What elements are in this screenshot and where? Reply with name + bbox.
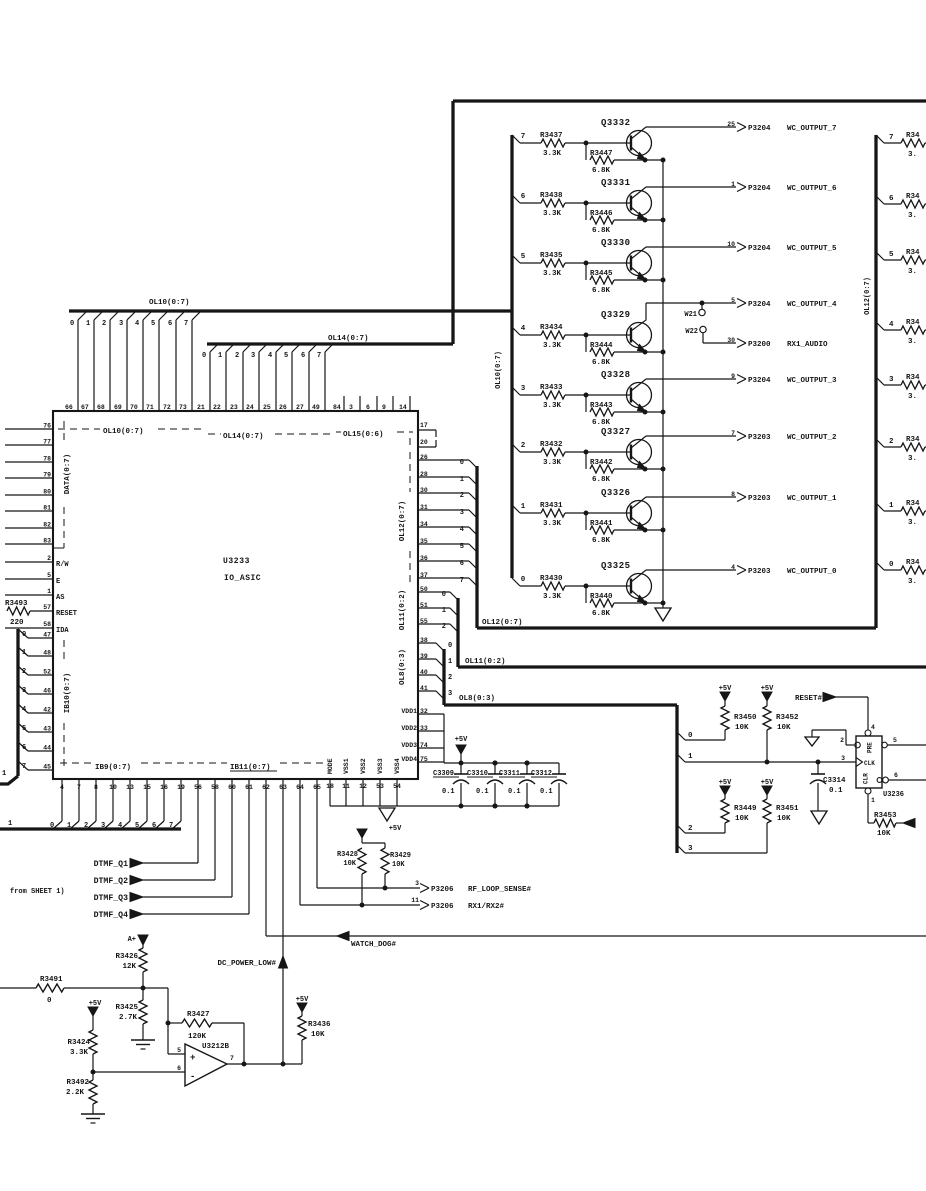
pin 36 U3233 right, OL12 bit 6 tap wire: [418, 560, 469, 562]
svg-text:+: +: [190, 1053, 195, 1063]
svg-text:3.3K: 3.3K: [70, 1049, 89, 1057]
svg-text:OL10(0:7): OL10(0:7): [149, 299, 190, 307]
svg-text:3: 3: [521, 385, 526, 393]
svg-text:41: 41: [420, 685, 428, 692]
svg-text:3.3K: 3.3K: [543, 150, 562, 158]
resistor R3438 3.3K: [541, 199, 565, 207]
svg-text:OL10(0:7): OL10(0:7): [103, 428, 144, 436]
bus label IB10(0:7) internal left: [63, 640, 65, 663]
wire OL8 bit 0 tap to R3450: [677, 732, 685, 740]
svg-text:3: 3: [889, 376, 894, 384]
pin 71 U3233 top, OL10 bit 5 tap wire: [158, 320, 160, 411]
svg-text:40: 40: [420, 669, 428, 676]
resistor R3447 6.8K base-emitter: [585, 143, 587, 160]
bus OL10(0:7) horizontal: [69, 309, 512, 312]
wire collector output WC_OUTPUT_4: [646, 302, 736, 304]
svg-text:R3442: R3442: [590, 459, 613, 467]
svg-text:44: 44: [43, 745, 51, 752]
pin 79 U3233 left DATA wire: [5, 477, 53, 479]
pin 49 U3233 top, OL14 bit 7 tap wire: [324, 352, 326, 411]
svg-text:3.: 3.: [908, 212, 917, 220]
svg-text:0: 0: [202, 352, 206, 360]
wire OL10 bit 2 tap: [512, 444, 520, 452]
svg-text:1: 1: [218, 352, 222, 360]
svg-text:VDD4: VDD4: [401, 756, 417, 763]
wire VDD tie to +5V rail: [443, 714, 445, 763]
svg-text:3.3K: 3.3K: [543, 270, 562, 278]
svg-text:51: 51: [420, 602, 428, 609]
resistor R3452 10K: [766, 701, 768, 706]
svg-text:R3437: R3437: [540, 132, 563, 140]
svg-text:U3236: U3236: [883, 791, 904, 799]
svg-text:20: 20: [420, 439, 428, 446]
junction Q3330 emitter: [643, 278, 647, 282]
svg-text:+5V: +5V: [389, 825, 402, 833]
bus label IB9(0:7) internal bottom: [60, 762, 92, 764]
wire collector output WC_OUTPUT_5: [646, 246, 736, 248]
svg-text:14: 14: [399, 404, 407, 411]
svg-text:DTMF_Q4: DTMF_Q4: [94, 911, 128, 920]
svg-text:3.: 3.: [908, 393, 917, 401]
svg-text:R3436: R3436: [308, 1021, 331, 1029]
svg-text:R3425: R3425: [115, 1004, 138, 1012]
svg-text:W22: W22: [685, 328, 698, 336]
resistor R3436 10K: [301, 1012, 303, 1016]
wire base of Q3329: [565, 334, 631, 336]
svg-text:5: 5: [731, 297, 735, 304]
pin 19 U3233 bottom, IB9 bit 7 tap wire: [180, 779, 182, 821]
svg-text:R34: R34: [906, 249, 920, 257]
svg-text:R3491: R3491: [40, 976, 63, 984]
pin 58 IDA wire: [5, 627, 53, 629]
svg-text:3: 3: [688, 845, 693, 853]
svg-text:C3314: C3314: [823, 777, 846, 785]
resistor R3451 10K: [766, 795, 768, 799]
transistor Q3327 NPN: [627, 440, 652, 465]
svg-text:Q3328: Q3328: [601, 370, 631, 380]
resistor R3493 220 on RESET: [7, 607, 30, 615]
transistor Q3330 NPN: [627, 251, 652, 276]
svg-text:1: 1: [8, 820, 12, 828]
svg-text:1: 1: [86, 320, 90, 328]
svg-text:WC_OUTPUT_4: WC_OUTPUT_4: [787, 301, 837, 309]
pin 31 U3233 right, OL12 bit 3 tap wire: [418, 509, 469, 511]
transistor Q3325 NPN: [627, 574, 652, 599]
svg-text:+5V: +5V: [455, 736, 468, 744]
svg-text:7: 7: [317, 352, 321, 360]
pin 28 U3233 right, OL12 bit 1 tap wire: [418, 476, 469, 478]
pin 57 RESET wire: [30, 610, 53, 612]
svg-text:DC_POWER_LOW#: DC_POWER_LOW#: [217, 960, 276, 968]
svg-text:1: 1: [2, 770, 6, 778]
pin 70 U3233 top, OL10 bit 4 tap wire: [142, 320, 144, 411]
svg-text:4: 4: [135, 320, 139, 328]
junction Q3329 emitter: [643, 350, 647, 354]
svg-text:4: 4: [521, 325, 526, 333]
bus label OL14(0:7) internal top: [208, 433, 221, 435]
pin 53 VSS3 U3233 bottom wire: [379, 779, 381, 806]
junction C3310 ground: [459, 804, 463, 808]
svg-text:0.1: 0.1: [829, 787, 843, 795]
svg-text:50: 50: [420, 586, 428, 593]
svg-text:OL12(0:7): OL12(0:7): [482, 619, 523, 627]
bus OL14(0:7) horizontal and riser to top rail: [207, 342, 453, 345]
wire base of Q3330: [565, 262, 631, 264]
svg-text:0.1: 0.1: [508, 788, 521, 796]
svg-text:OL12(0:7): OL12(0:7): [864, 277, 872, 315]
pin 39 U3233 right, OL8 bit 1 tap wire: [418, 658, 436, 660]
svg-text:U3212B: U3212B: [202, 1043, 230, 1051]
svg-text:P3203: P3203: [748, 568, 771, 576]
svg-text:R34: R34: [906, 193, 920, 201]
svg-text:76: 76: [43, 423, 51, 430]
bus label IB11(0:7) internal bottom: [197, 762, 227, 764]
wire RX1/RX2# from pin 64: [299, 779, 301, 905]
svg-text:3: 3: [460, 509, 464, 517]
svg-text:6.8K: 6.8K: [592, 419, 611, 427]
resistor R3440 6.8K base-emitter: [585, 586, 587, 603]
resistor R3426 12K: [142, 945, 144, 948]
svg-text:7: 7: [889, 134, 894, 142]
svg-text:6: 6: [22, 744, 26, 752]
svg-text:3: 3: [22, 687, 26, 695]
pin 54 VSS4 U3233 bottom wire: [396, 779, 398, 806]
pin 2 R/W wire: [5, 561, 53, 563]
ground C3314: [811, 811, 827, 824]
wire collector output WC_OUTPUT_0: [646, 569, 736, 571]
pin 66 U3233 top, OL10 bit 0 tap wire: [77, 320, 79, 411]
svg-text:6.8K: 6.8K: [592, 359, 611, 367]
wire collector output WC_OUTPUT_7: [646, 126, 736, 128]
svg-text:10: 10: [727, 241, 735, 248]
pin 69 U3233 top, OL10 bit 3 tap wire: [126, 320, 128, 411]
svg-text:R3429: R3429: [390, 852, 411, 860]
resistor R3492 2.2K: [92, 1072, 94, 1080]
svg-text:P3203: P3203: [748, 495, 771, 503]
svg-text:PRE: PRE: [867, 742, 874, 753]
svg-text:8: 8: [94, 784, 98, 791]
svg-text:WC_OUTPUT_6: WC_OUTPUT_6: [787, 185, 837, 193]
svg-text:2: 2: [889, 438, 894, 446]
pin 23 U3233 top, OL14 bit 2 tap wire: [242, 352, 244, 411]
svg-text:81: 81: [43, 505, 51, 512]
resistor R3429 10K: [384, 843, 386, 848]
wire comparator output: [227, 1063, 302, 1065]
svg-text:83: 83: [43, 538, 51, 545]
svg-text:5: 5: [460, 543, 464, 551]
resistor R3428 10K: [358, 848, 366, 874]
svg-text:R3444: R3444: [590, 342, 613, 350]
svg-text:2: 2: [460, 492, 464, 500]
pin 78 U3233 left DATA wire: [5, 461, 53, 463]
pin 76 U3233 left DATA wire: [5, 428, 53, 430]
svg-text:P3204: P3204: [748, 185, 771, 193]
svg-text:77: 77: [43, 439, 51, 446]
bus label OL15(0:5) internal top: [336, 431, 341, 433]
svg-text:VDD2: VDD2: [401, 725, 417, 732]
ground R3492: [81, 1113, 105, 1115]
svg-text:R3438: R3438: [540, 192, 563, 200]
svg-text:19: 19: [177, 784, 185, 791]
svg-text:35: 35: [420, 538, 428, 545]
svg-text:220: 220: [10, 619, 24, 627]
pin 52 U3233 left, IB10 bit 2 tap wire: [28, 674, 53, 676]
svg-text:47: 47: [43, 632, 51, 639]
svg-text:6.8K: 6.8K: [592, 476, 611, 484]
resistor R3443 6.8K base-emitter: [585, 395, 587, 412]
svg-text:IDA: IDA: [56, 627, 69, 635]
wire to comparator + input: [167, 988, 169, 1054]
svg-text:Q3327: Q3327: [601, 427, 631, 437]
svg-text:R3492: R3492: [66, 1079, 89, 1087]
resistor R34xx 3.3K right column bit 7 (clipped): [901, 139, 925, 147]
svg-text:0: 0: [70, 320, 74, 328]
svg-text:7: 7: [460, 577, 464, 585]
svg-text:10: 10: [109, 784, 117, 791]
pin 40 U3233 right, OL8 bit 2 tap wire: [418, 674, 436, 676]
pin 20 U3233 right OL15 stub: [418, 446, 436, 448]
pin 81 U3233 left DATA wire: [5, 510, 53, 512]
svg-text:R3450: R3450: [734, 714, 757, 722]
resistor R34xx 3.3K right column bit 4 (clipped): [901, 326, 925, 334]
pin 17 U3233 right OL15 stub: [418, 429, 436, 431]
pin 5 E wire: [5, 578, 53, 580]
svg-text:4: 4: [889, 321, 894, 329]
svg-text:32: 32: [420, 708, 428, 715]
svg-text:R3433: R3433: [540, 384, 563, 392]
svg-text:7: 7: [77, 784, 81, 791]
svg-text:10K: 10K: [343, 860, 356, 868]
svg-text:37: 37: [420, 572, 428, 579]
resistor R3427 120K feedback: [168, 1022, 182, 1024]
jumper W22: [700, 326, 706, 332]
wire CLR to R3453: [867, 794, 869, 823]
svg-text:2.7K: 2.7K: [119, 1014, 138, 1022]
pin 30 U3233 right, OL12 bit 2 tap wire: [418, 492, 469, 494]
svg-text:WATCH_DOG#: WATCH_DOG#: [351, 941, 397, 949]
svg-text:34: 34: [420, 521, 428, 528]
svg-text:38: 38: [420, 637, 428, 644]
svg-text:3.3K: 3.3K: [543, 593, 562, 601]
pin 27 U3233 top, OL14 bit 6 tap wire: [308, 352, 310, 411]
svg-text:WC_OUTPUT_5: WC_OUTPUT_5: [787, 245, 837, 253]
svg-text:3: 3: [415, 880, 419, 887]
bus OL11(0:2) to sheet edge: [456, 598, 459, 667]
svg-text:IB10(0:7): IB10(0:7): [64, 673, 72, 714]
svg-text:48: 48: [43, 650, 51, 657]
junction R3428 to RX1/RX2#: [360, 903, 364, 907]
svg-text:6: 6: [894, 772, 898, 779]
pin 10 U3233 bottom, IB9 bit 3 tap wire: [112, 779, 114, 821]
svg-text:6.8K: 6.8K: [592, 610, 611, 618]
svg-text:DTMF_Q2: DTMF_Q2: [94, 877, 128, 886]
wire collector output WC_OUTPUT_1: [646, 496, 736, 498]
svg-text:0: 0: [47, 997, 52, 1005]
pin 5 Q output: [882, 742, 888, 748]
junction Q3326 emitter: [643, 528, 647, 532]
svg-text:2: 2: [235, 352, 239, 360]
svg-text:10K: 10K: [877, 830, 891, 838]
svg-text:3: 3: [349, 404, 353, 411]
wire OL10 bit 6 tap: [512, 195, 520, 203]
wire base of Q3326: [565, 512, 631, 514]
resistor R3491 0: [36, 984, 64, 992]
wire OL8 bit 1 tap to U3236 CLK: [677, 754, 685, 762]
transistor Q3329 NPN: [627, 323, 652, 348]
svg-text:Q3330: Q3330: [601, 238, 631, 248]
svg-text:78: 78: [43, 456, 51, 463]
pin 2 D input: [855, 742, 861, 748]
svg-text:2: 2: [840, 737, 844, 744]
svg-text:75: 75: [420, 756, 428, 763]
svg-text:R34: R34: [906, 319, 920, 327]
junction R3452 on CLK line: [765, 760, 769, 764]
svg-text:30: 30: [420, 487, 428, 494]
svg-text:54: 54: [393, 783, 401, 790]
capacitor C3311 0.1: [525, 761, 529, 765]
svg-text:VSS1: VSS1: [343, 758, 350, 774]
pin 15 U3233 bottom, IB9 bit 5 tap wire: [146, 779, 148, 821]
svg-text:120K: 120K: [188, 1033, 207, 1041]
pin 42 U3233 left, IB10 bit 4 tap wire: [28, 712, 53, 714]
svg-text:6.8K: 6.8K: [592, 287, 611, 295]
svg-text:CLK: CLK: [864, 760, 875, 767]
svg-text:13: 13: [126, 784, 134, 791]
pin 6 U3233 top OL15 stub: [376, 396, 378, 411]
jumper W21: [700, 301, 704, 305]
transistor Q3326 NPN: [627, 501, 652, 526]
resistor R3425 2.7K: [142, 988, 144, 1000]
pin 33 VDD2 U3233 right wire: [418, 730, 444, 732]
pin 55 U3233 right, OL11 bit 2 tap wire: [418, 623, 450, 625]
wire OL10 bit 1 tap: [512, 505, 520, 513]
resistor R3433 3.3K: [541, 391, 565, 399]
wire collector output WC_OUTPUT_3: [646, 378, 736, 380]
pin 37 U3233 right, OL12 bit 7 tap wire: [418, 577, 469, 579]
wire OL12 bit 2 tap right column: [876, 439, 884, 447]
svg-text:73: 73: [179, 404, 187, 411]
wire base of Q3327: [565, 451, 631, 453]
svg-text:1: 1: [448, 658, 452, 666]
svg-text:18: 18: [326, 783, 334, 790]
svg-text:DTMF_Q3: DTMF_Q3: [94, 894, 128, 903]
pin 45 U3233 left, IB10 bit 7 tap wire: [28, 769, 53, 771]
net label WATCH_DOG# with arrow: [337, 932, 349, 941]
bus OL8(0:3) down to U3236 area: [442, 649, 445, 705]
svg-text:R3449: R3449: [734, 805, 757, 813]
pin 22 U3233 top, OL14 bit 1 tap wire: [225, 352, 227, 411]
svg-text:1: 1: [460, 476, 464, 484]
bus IB9(0:7) horizontal to sheet edge: [0, 827, 181, 830]
svg-text:9: 9: [731, 373, 735, 380]
svg-text:49: 49: [312, 404, 320, 411]
svg-text:3.: 3.: [908, 151, 917, 159]
svg-text:82: 82: [43, 522, 51, 529]
pin 80 U3233 left DATA wire: [5, 494, 53, 496]
svg-text:R34: R34: [906, 559, 920, 567]
svg-text:RESET#: RESET#: [795, 695, 823, 703]
pin 46 U3233 left, IB10 bit 3 tap wire: [28, 693, 53, 695]
svg-text:17: 17: [420, 422, 428, 429]
svg-text:R3431: R3431: [540, 502, 563, 510]
svg-text:7: 7: [184, 320, 188, 328]
svg-text:10K: 10K: [777, 815, 791, 823]
pin 82 U3233 left DATA wire: [5, 527, 53, 529]
svg-text:68: 68: [97, 404, 105, 411]
pin 34 U3233 right, OL12 bit 4 tap wire: [418, 526, 469, 528]
resistor R34xx 3.3K right column bit 3 (clipped): [901, 381, 925, 389]
svg-text:6: 6: [366, 404, 370, 411]
svg-text:R3434: R3434: [540, 324, 563, 332]
wire input from sheet edge: [0, 987, 36, 989]
wire W22 to RX1_AUDIO: [702, 333, 704, 343]
svg-text:5: 5: [889, 251, 894, 259]
svg-text:RESET: RESET: [56, 610, 77, 618]
svg-text:80: 80: [43, 489, 51, 496]
svg-text:3: 3: [251, 352, 255, 360]
svg-text:3: 3: [448, 690, 452, 698]
svg-text:R34: R34: [906, 132, 920, 140]
svg-text:16: 16: [160, 784, 168, 791]
junction Q3331 emitter: [643, 218, 647, 222]
svg-text:Q3329: Q3329: [601, 310, 631, 320]
svg-text:2: 2: [521, 442, 526, 450]
svg-text:5: 5: [177, 1047, 181, 1054]
svg-text:RF_LOOP_SENSE#: RF_LOOP_SENSE#: [468, 886, 532, 894]
svg-text:8: 8: [731, 491, 735, 498]
svg-text:7: 7: [230, 1055, 234, 1062]
svg-text:2: 2: [448, 674, 452, 682]
svg-text:0.1: 0.1: [540, 788, 553, 796]
ground VSS rail: [330, 805, 559, 807]
svg-text:10K: 10K: [735, 724, 749, 732]
svg-text:12K: 12K: [122, 963, 136, 971]
wire OL12 bit 1 tap right column: [876, 503, 884, 511]
svg-text:5: 5: [893, 737, 897, 744]
capacitor C3309 0.1: [460, 763, 462, 774]
svg-text:OL8(0:3): OL8(0:3): [459, 695, 495, 703]
svg-text:39: 39: [420, 653, 428, 660]
svg-text:6.8K: 6.8K: [592, 537, 611, 545]
pin 4 PRE bubble: [865, 730, 871, 736]
pin 11 VSS1 U3233 bottom wire: [345, 779, 347, 806]
pin 8 U3233 bottom, IB9 bit 2 tap wire: [95, 779, 97, 821]
resistor R3453 10K: [868, 822, 874, 824]
svg-text:W21: W21: [684, 311, 697, 319]
svg-text:VSS4: VSS4: [394, 758, 401, 774]
svg-text:R3426: R3426: [115, 953, 138, 961]
svg-text:72: 72: [163, 404, 171, 411]
pin 25 U3233 top, OL14 bit 4 tap wire: [275, 352, 277, 411]
svg-text:WC_OUTPUT_1: WC_OUTPUT_1: [787, 495, 837, 503]
pin 14 U3233 top OL15 stub: [409, 396, 411, 411]
svg-text:0.1: 0.1: [442, 788, 455, 796]
svg-text:VSS2: VSS2: [360, 758, 367, 774]
pin 77 U3233 left DATA wire: [5, 444, 53, 446]
svg-text:DTMF_Q1: DTMF_Q1: [94, 860, 128, 869]
svg-text:3: 3: [119, 320, 123, 328]
junction Q3332 emitter: [643, 158, 647, 162]
svg-text:3.: 3.: [908, 338, 917, 346]
svg-text:3.: 3.: [908, 268, 917, 276]
pin 13 U3233 bottom, IB9 bit 4 tap wire: [129, 779, 131, 821]
svg-text:3.: 3.: [908, 578, 917, 586]
svg-text:R34: R34: [906, 374, 920, 382]
pin 35 U3233 right, OL12 bit 5 tap wire: [418, 543, 469, 545]
junction feedback node: [166, 1021, 170, 1025]
resistor R3446 6.8K base-emitter: [585, 203, 587, 220]
svg-text:Q3326: Q3326: [601, 488, 631, 498]
